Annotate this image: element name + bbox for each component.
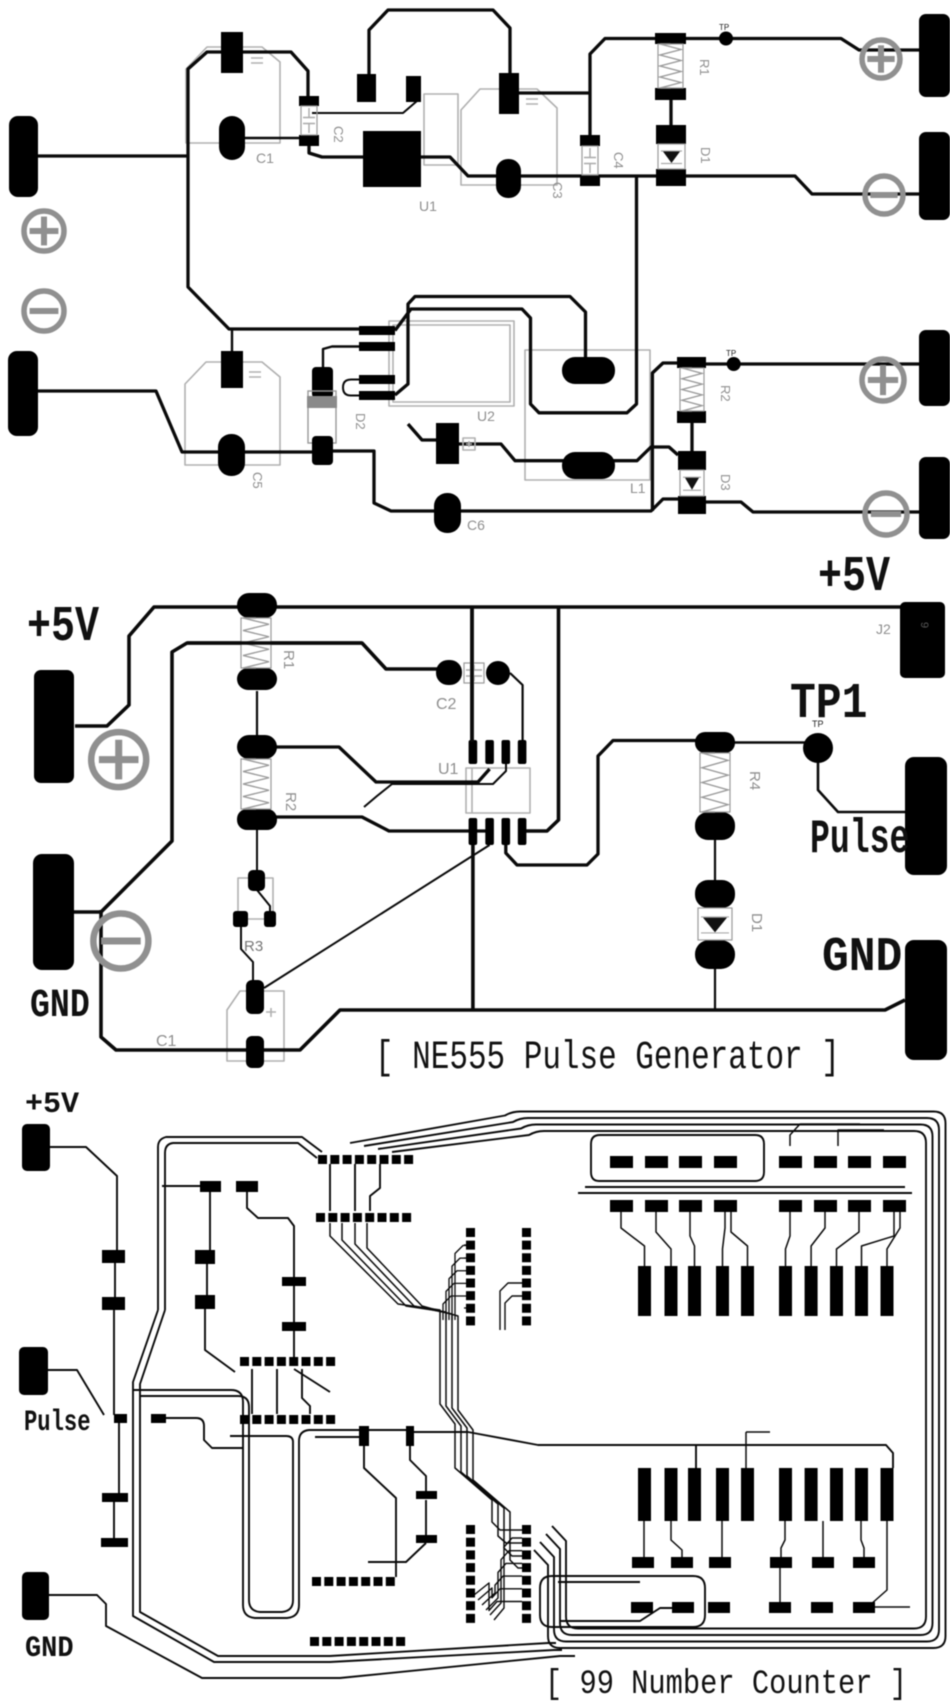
- svg-text:Pulse: Pulse: [24, 1405, 91, 1439]
- svg-text:GND: GND: [30, 983, 90, 1029]
- svg-text:C1: C1: [256, 150, 274, 166]
- svg-text:+5V: +5V: [25, 1088, 79, 1122]
- svg-text:+5V: +5V: [818, 548, 891, 605]
- svg-text:D1: D1: [698, 147, 713, 164]
- svg-text:R2: R2: [282, 792, 299, 811]
- svg-text:GND: GND: [822, 930, 902, 985]
- svg-text:TP: TP: [812, 719, 824, 729]
- svg-text:D1: D1: [748, 913, 765, 932]
- svg-text:R1: R1: [280, 650, 297, 669]
- svg-text:TP1: TP1: [790, 676, 867, 733]
- svg-text:U1: U1: [419, 198, 437, 214]
- svg-text:D3: D3: [718, 474, 733, 491]
- svg-text:+5V: +5V: [27, 598, 100, 655]
- svg-text:TP: TP: [719, 23, 729, 32]
- svg-text:L1: L1: [630, 480, 646, 496]
- svg-text:C4: C4: [611, 152, 626, 169]
- svg-text:[ 99 Number Counter ]: [ 99 Number Counter ]: [545, 1666, 907, 1704]
- svg-text:9: 9: [918, 622, 930, 628]
- svg-text:R2: R2: [718, 385, 733, 402]
- svg-text:R1: R1: [697, 59, 712, 76]
- svg-text:GND: GND: [25, 1631, 74, 1666]
- svg-text:Pulse: Pulse: [810, 814, 909, 868]
- svg-text:C3: C3: [550, 182, 565, 199]
- svg-text:C1: C1: [156, 1033, 177, 1050]
- svg-text:U2: U2: [477, 408, 495, 424]
- svg-text:R4: R4: [746, 771, 763, 790]
- svg-text:J2: J2: [876, 621, 891, 637]
- svg-text:TP: TP: [726, 349, 736, 358]
- svg-text:C5: C5: [250, 472, 265, 489]
- svg-text:[ NE555 Pulse Generator ]: [ NE555 Pulse Generator ]: [375, 1034, 840, 1080]
- svg-text:D2: D2: [353, 413, 368, 430]
- svg-text:C2: C2: [436, 696, 457, 713]
- svg-text:U1: U1: [438, 761, 459, 778]
- svg-text:C2: C2: [331, 126, 346, 143]
- svg-text:R3: R3: [244, 938, 263, 955]
- svg-text:C6: C6: [467, 517, 485, 533]
